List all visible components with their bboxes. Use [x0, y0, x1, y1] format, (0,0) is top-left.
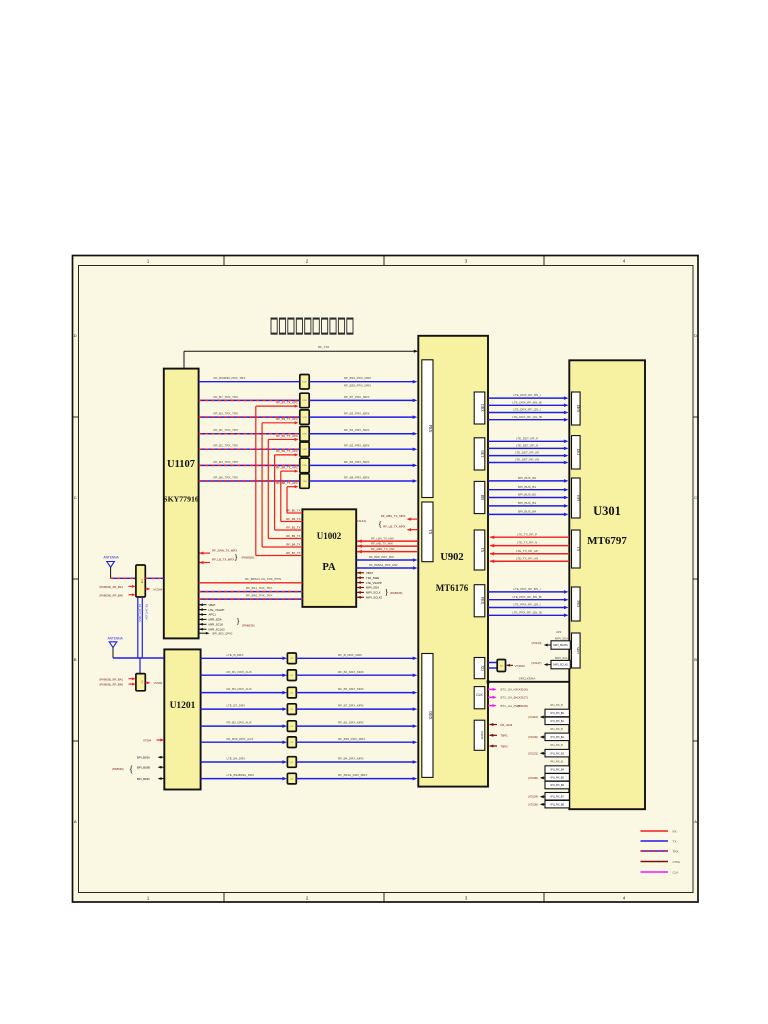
- pin stub VBAT: [200, 604, 207, 606]
- svg-text:A: A: [74, 819, 77, 824]
- svg-text:DRX: DRX: [480, 404, 484, 412]
- svg-text:LTE_PRX_RF_QN_I: LTE_PRX_RF_QN_I: [513, 603, 541, 607]
- IPU port box 7: [545, 781, 569, 789]
- wire LTE_TX_RF_AP: [490, 553, 569, 555]
- wire LTE_DET_RF_N: [488, 447, 566, 449]
- svg-text:MIPI: MIPI: [576, 647, 580, 654]
- svg-text:LTE_B_DRX: LTE_B_DRX: [227, 653, 244, 657]
- svg-text:LTE_VSAPP: LTE_VSAPP: [366, 581, 382, 585]
- svg-text:PA: PA: [322, 562, 336, 573]
- wire filter to U902 PRX: [309, 416, 415, 418]
- wire junction to diversity switch: [139, 658, 141, 674]
- svg-text:CTRL: CTRL: [673, 860, 681, 864]
- border zone tick: [72, 740, 78, 742]
- svg-text:RF_MB_TX_MW: RF_MB_TX_MW: [371, 541, 393, 545]
- wire SAW to U902 DRX: [296, 778, 415, 780]
- title glyph box: [296, 318, 302, 334]
- svg-text:MIPI_SDA: MIPI_SDA: [366, 586, 379, 590]
- pin stub switch ctrl 2: [129, 594, 135, 596]
- wire SAW to U902 DRX: [296, 725, 415, 727]
- crystal Y1: [497, 660, 505, 672]
- U902 port BPI: [474, 481, 485, 513]
- wire U1201 to SAW: [201, 674, 285, 676]
- svg-text:RF_B1_DRX_MRX: RF_B1_DRX_MRX: [338, 670, 364, 674]
- svg-text:U1B: U1B: [303, 417, 308, 419]
- svg-text:BPI_B03B: BPI_B03B: [137, 765, 150, 769]
- pin stub RF_MB1_TX_MRX: [408, 518, 419, 520]
- pin stub TBP1: [490, 734, 498, 736]
- svg-text:LTE_TX_RF_AP: LTE_TX_RF_AP: [516, 549, 538, 553]
- wire LTE_PRX_RF_QN_IB: [488, 614, 566, 616]
- svg-text:RF_B8_TRX_TRX: RF_B8_TRX_TRX: [214, 475, 239, 479]
- svg-text:VC504: VC504: [154, 681, 163, 685]
- U301 port DET: [572, 436, 581, 469]
- wire LTE_DRX_RF_QN_I: [488, 412, 566, 414]
- diversity SAW filter FL123: [287, 704, 296, 715]
- svg-text:MIPI_SCLK: MIPI_SCLK: [209, 623, 224, 627]
- svg-text:RF_B7_TRX_TRX: RF_B7_TRX_TRX: [214, 395, 239, 399]
- svg-text:RF_B2_TRX_TRX: RF_B2_TRX_TRX: [214, 444, 239, 448]
- wire U1201 to SAW: [201, 708, 285, 710]
- IC block U1201: [164, 649, 200, 789]
- U902 port DRX: [422, 654, 433, 778]
- svg-text:RF_ANT_DIV: RF_ANT_DIV: [145, 604, 149, 620]
- svg-text:(X3144): (X3144): [532, 641, 542, 645]
- svg-text:{: {: [129, 764, 133, 774]
- wire PA to U902 RF_B68A4_PRX: [356, 567, 415, 569]
- svg-text:RF_B34A_DRX_MRX: RF_B34A_DRX_MRX: [338, 773, 367, 777]
- wire U1201 to SAW: [201, 725, 285, 727]
- antenna ANT1 symbol: [107, 562, 115, 568]
- svg-text:RF_B2_DRX_MRX: RF_B2_DRX_MRX: [338, 721, 364, 725]
- wire LTE_TX_RF_N: [490, 545, 569, 547]
- U902 port DRX out: [474, 392, 485, 424]
- wire LTE_DRX_RF_BN_IB: [488, 404, 566, 406]
- wire U1201 to SAW: [201, 657, 285, 659]
- wire ANT2 to U1201: [113, 657, 164, 659]
- wire U1107 to filter: [199, 464, 300, 466]
- pin stub VC5044 out: [145, 682, 148, 684]
- svg-text:}: }: [234, 552, 238, 562]
- svg-text:D: D: [694, 333, 697, 338]
- svg-text:RF_LB_TX_MRX: RF_LB_TX_MRX: [383, 525, 405, 529]
- svg-text:DRX: DRX: [576, 405, 580, 413]
- svg-text:(X3131): (X3131): [528, 751, 538, 755]
- pin stub RF_LB_TX_MRX2: [408, 529, 419, 531]
- svg-text:MIPI_SCLK: MIPI_SCLK: [555, 656, 570, 660]
- MIPI_SCLK0 port box: [551, 660, 570, 668]
- IPU port box 2: [545, 717, 569, 725]
- svg-text:B: B: [694, 657, 697, 662]
- svg-text:LTE_PRX_RF_BN_IB: LTE_PRX_RF_BN_IB: [512, 595, 541, 599]
- wire LTE_DET_RF_AP: [488, 455, 566, 457]
- svg-text:MT6176: MT6176: [436, 583, 469, 593]
- wire BPI_BUS_B1: [488, 489, 566, 491]
- svg-text:IPU_RX_B0: IPU_RX_B0: [550, 712, 564, 715]
- pin stub VT3043: [507, 664, 514, 666]
- wire PA TX feed to filter 7: [286, 487, 288, 513]
- PA block U1002: [302, 509, 356, 607]
- svg-text:RF_B68A4_PRX_MW: RF_B68A4_PRX_MW: [369, 563, 398, 567]
- svg-text:LTE_B7_DRX: LTE_B7_DRX: [227, 704, 246, 708]
- svg-text:RF_B2_PRX_MRX: RF_B2_PRX_MRX: [344, 444, 370, 448]
- duplexer filter FL112: [300, 410, 309, 425]
- IPU port box 3: [545, 733, 569, 741]
- svg-text:LTE_VSAPP: LTE_VSAPP: [209, 608, 225, 612]
- PA pin stub LTE_VSAPP: [357, 582, 364, 584]
- svg-text:BPI_BUS_B1: BPI_BUS_B1: [518, 485, 536, 489]
- U902 port PAVB: [474, 720, 485, 750]
- wire U1201 to SAW: [201, 741, 285, 743]
- wire RF_B68A4_PA_TRK: [199, 582, 303, 584]
- svg-text:(PA8636): (PA8636): [112, 767, 124, 771]
- svg-text:RF_B2_TX: RF_B2_TX: [286, 534, 300, 538]
- svg-text:RF_LB4_TX_MW: RF_LB4_TX_MW: [371, 536, 394, 540]
- svg-text:TBP2: TBP2: [501, 744, 509, 748]
- svg-text:RF_B4_DRX_MRX: RF_B4_DRX_MRX: [338, 757, 364, 761]
- svg-text:(PA8636)_RF_B41: (PA8636)_RF_B41: [100, 677, 124, 681]
- wire MIPI_SCLK0: [546, 664, 551, 666]
- U902 port DET: [474, 438, 485, 470]
- PA pin stub MIPI_SCLK2: [357, 596, 364, 598]
- wire PA TX feed to filter 3: [261, 423, 263, 547]
- svg-text:CLK: CLK: [476, 693, 483, 697]
- wire SAW to U902 DRX: [296, 708, 415, 710]
- svg-text:BPI_B03A: BPI_B03A: [137, 755, 150, 759]
- pin stub LTE_VSAPP: [200, 609, 207, 611]
- pin stub APC1: [200, 614, 207, 616]
- svg-text:PRX: PRX: [576, 601, 580, 608]
- svg-text:RF_B2_DRX_AUX: RF_B2_DRX_AUX: [227, 721, 252, 725]
- svg-text:(PA8636)_RF_B40: (PA8636)_RF_B40: [100, 593, 124, 597]
- svg-text:U902: U902: [440, 552, 463, 563]
- wire ANT1 to switch dashed: [111, 577, 136, 579]
- svg-text:LTE_DET_RF_P: LTE_DET_RF_P: [516, 436, 538, 440]
- svg-text:U1B: U1B: [303, 481, 308, 483]
- svg-text:RF_TX0: RF_TX0: [318, 345, 330, 349]
- pin stub BPI_B03A: [159, 756, 165, 758]
- border zone tick: [223, 255, 225, 265]
- wire SAW to U902 DRX: [296, 741, 415, 743]
- antenna switch U1A1: [136, 565, 145, 597]
- border zone tick: [72, 578, 78, 580]
- transceiver block U902: [418, 336, 488, 787]
- svg-text:RF_B1_TRX_TRX: RF_B1_TRX_TRX: [214, 428, 239, 432]
- wire IPU (X3130): [542, 736, 546, 738]
- wire BTC_GA_BK: [488, 696, 495, 698]
- svg-text:RF_3044: RF_3044: [501, 723, 513, 727]
- svg-text:LTE_DET_RF_AN: LTE_DET_RF_AN: [515, 458, 539, 462]
- wire switch feed vertical B: [141, 597, 143, 658]
- wire filter to U902 PRX: [309, 480, 415, 482]
- svg-text:IPU_RX_B2: IPU_RX_B2: [550, 736, 564, 739]
- svg-text:(X3147): (X3147): [532, 661, 542, 665]
- pin stub MIPI_SCLK2: [200, 628, 207, 630]
- wire U1107 to filter: [199, 480, 300, 482]
- title glyph box: [305, 318, 311, 334]
- U902 port CLK: [474, 687, 485, 709]
- pin stub switch ctrl 1: [129, 585, 135, 587]
- wire MIPI_SDATA: [546, 644, 551, 646]
- wire U902 TX to PA RF_LB4_TX_MW: [357, 540, 418, 542]
- wire U1107 to filter: [199, 399, 300, 401]
- wire BPI_BUS_B3: [488, 505, 566, 507]
- svg-text:RF_B3_TRX_TRX: RF_B3_TRX_TRX: [214, 412, 239, 416]
- svg-text:}: }: [236, 616, 240, 626]
- svg-text:IPU_RX_B3: IPU_RX_B3: [550, 752, 564, 755]
- wire LTE_TX_RF_P: [490, 536, 569, 538]
- U902 port PRX out: [474, 585, 485, 617]
- wire SAW to U902 DRX: [296, 761, 415, 763]
- svg-text:IPU_RX_B: IPU_RX_B: [550, 727, 563, 731]
- wire filter to U902 PRX: [309, 381, 415, 383]
- IPU port box 5: [545, 766, 569, 774]
- svg-text:VBAT: VBAT: [366, 571, 373, 575]
- wire BTC_GA_PWR: [488, 705, 495, 707]
- svg-text:RF_B8_PRX_MRX: RF_B8_PRX_MRX: [344, 475, 370, 479]
- title glyph box: [279, 318, 285, 334]
- svg-text:RF_B40_TRX_TRX: RF_B40_TRX_TRX: [246, 594, 272, 598]
- svg-text:(X3144): (X3144): [355, 519, 366, 523]
- title glyph box: [313, 318, 319, 334]
- svg-text:LTE_TX_RF_N: LTE_TX_RF_N: [517, 541, 537, 545]
- pin stub RF_3044: [490, 724, 498, 726]
- svg-text:VBAT: VBAT: [209, 603, 216, 607]
- wire SRCLKENA: [488, 681, 569, 683]
- svg-text:(X3108): (X3108): [518, 704, 528, 708]
- duplexer filter FL111: [300, 393, 309, 408]
- wire XO to crystal a: [488, 662, 497, 664]
- border zone tick: [543, 255, 545, 265]
- svg-text:BPI_BUS_B4: BPI_BUS_B4: [518, 510, 536, 514]
- svg-text:RF_B39_PRX_MRX: RF_B39_PRX_MRX: [344, 384, 371, 388]
- PA pin stub TPA_SWE: [357, 577, 364, 579]
- svg-text:RF_B41_TRX_TRX: RF_B41_TRX_TRX: [246, 586, 272, 590]
- U301 port TX: [572, 530, 581, 568]
- U301 port MIPI: [572, 633, 581, 668]
- svg-text:RF_B7_DRX_MRX: RF_B7_DRX_MRX: [338, 704, 364, 708]
- wire switch to U1107 dashed: [145, 577, 164, 579]
- wire U1201 to SAW: [201, 692, 285, 694]
- IPU port box 6: [545, 774, 569, 782]
- diversity SAW filter FL122: [287, 687, 296, 698]
- wire LTE_PRX_RF_BN_I: [488, 591, 566, 593]
- svg-text:RF_LB_TX_MRX: RF_LB_TX_MRX: [212, 558, 234, 562]
- svg-text:U1B: U1B: [303, 449, 308, 451]
- svg-text:LTE_DET_RF_N: LTE_DET_RF_N: [516, 444, 538, 448]
- U301 port BPI: [572, 478, 581, 518]
- wire BPI_BUS_B0: [488, 480, 566, 482]
- svg-text:RF_B3_DRX_AUX: RF_B3_DRX_AUX: [227, 687, 252, 691]
- svg-text:MIPI_SDATA: MIPI_SDATA: [553, 644, 568, 647]
- wire PA TX feed to filter 2: [255, 406, 257, 555]
- svg-text:IPU_RX_B7: IPU_RX_B7: [550, 795, 564, 798]
- svg-text:IPU_RX_B6: IPU_RX_B6: [550, 784, 564, 787]
- svg-text:MIPI_SCLK2: MIPI_SCLK2: [366, 596, 383, 600]
- duplexer filter FL115: [300, 458, 309, 473]
- svg-text:MT6797: MT6797: [587, 535, 627, 547]
- wire BTC_GA_NF: [488, 688, 495, 690]
- pin stub div ctrl 1: [129, 678, 135, 680]
- legend line TRX dashed: [641, 850, 669, 852]
- svg-text:(X3134): (X3134): [528, 795, 538, 799]
- diversity SAW filter FL126: [287, 757, 296, 768]
- wire LTE_PRX_RF_BN_IB: [488, 599, 566, 601]
- svg-text:(X3136): (X3136): [528, 802, 538, 806]
- svg-text:RF_B2_TX_APC: RF_B2_TX_APC: [276, 449, 298, 453]
- wire LTE_PRX_RF_QN_I: [488, 607, 566, 609]
- pin stub BPI_B03_QPA: [200, 632, 208, 634]
- wire filter to U902 PRX: [309, 433, 415, 435]
- svg-text:C: C: [694, 495, 697, 500]
- wire SAW to U902 DRX: [296, 674, 415, 676]
- svg-text:LTE_B34B39A_DRX: LTE_B34B39A_DRX: [227, 773, 255, 777]
- title glyph box: [322, 318, 328, 334]
- wire LTE_DET_RF_AN: [488, 462, 566, 464]
- svg-text:TRX: TRX: [673, 849, 679, 853]
- title glyph box: [347, 318, 353, 334]
- wire filter to U902 PRX: [309, 448, 415, 450]
- svg-text:RF_B4_PRX_MRX: RF_B4_PRX_MRX: [344, 460, 370, 464]
- diversity SAW filter FL121: [287, 670, 296, 681]
- wire IPU (X3110): [542, 716, 546, 718]
- svg-text:SRCLKENA: SRCLKENA: [519, 676, 537, 680]
- svg-text:ANTENNA: ANTENNA: [108, 637, 124, 641]
- svg-text:LTE_PRX_RF_BN_I: LTE_PRX_RF_BN_I: [513, 587, 540, 591]
- PA pin stub MIPI_SDA: [357, 587, 364, 589]
- svg-text:DET: DET: [576, 449, 580, 457]
- svg-text:MIPI_SCLK: MIPI_SCLK: [366, 591, 381, 595]
- outer border frame: [73, 256, 699, 903]
- pin stub MIPI_SDA: [200, 618, 207, 620]
- legend line TX blue: [641, 840, 669, 842]
- wire U1107 to filter: [199, 433, 300, 435]
- svg-text:BTC_GA_NF: BTC_GA_NF: [501, 688, 518, 692]
- svg-text:RF_B4_TRX_TRX: RF_B4_TRX_TRX: [214, 460, 239, 464]
- sheet background: [72, 255, 699, 903]
- svg-text:RF_B68_PRX_MW: RF_B68_PRX_MW: [369, 555, 394, 559]
- wire U1107 to filter: [199, 416, 300, 418]
- wire SAW to U902 DRX: [296, 692, 415, 694]
- svg-text:RF_B7_TX_APC: RF_B7_TX_APC: [276, 400, 298, 404]
- title glyph box: [288, 318, 294, 334]
- svg-text:MIPI_SCLK0: MIPI_SCLK0: [553, 664, 568, 667]
- svg-text:RF_B0_TX: RF_B0_TX: [286, 508, 300, 512]
- svg-text:C: C: [74, 495, 77, 500]
- wire U1201 to SAW: [201, 761, 285, 763]
- MIPI_SDATA port box: [551, 641, 570, 649]
- U902 port PRX: [422, 360, 433, 498]
- wire IPU (X3131): [542, 752, 546, 754]
- baseband block U301: [569, 360, 645, 809]
- svg-text:BPI_BUS_B0: BPI_BUS_B0: [518, 476, 536, 480]
- wire switch feed vertical A: [137, 597, 139, 658]
- svg-text:(X3110): (X3110): [528, 715, 538, 719]
- svg-text:D: D: [74, 333, 77, 338]
- svg-text:RF_B1_PRX_MRX: RF_B1_PRX_MRX: [344, 428, 370, 432]
- svg-text:RX: RX: [673, 829, 677, 833]
- svg-text:RF_MB1_TX_MRX: RF_MB1_TX_MRX: [381, 514, 406, 518]
- wire IPU (X3134): [542, 796, 546, 798]
- wire XO to crystal b: [488, 667, 497, 669]
- svg-text:U1B: U1B: [303, 434, 308, 436]
- border zone tick: [383, 255, 385, 265]
- wire LTE_DET_RF_P: [488, 440, 566, 442]
- U902 port TX in: [474, 530, 485, 570]
- svg-text:A: A: [694, 819, 697, 824]
- svg-text:(X3100): (X3100): [528, 776, 538, 780]
- svg-text:RF_B1_TX_APC: RF_B1_TX_APC: [276, 434, 298, 438]
- svg-text:RF_B39_DRX_MRX: RF_B39_DRX_MRX: [338, 737, 365, 741]
- svg-text:LTE_DRX_RF_QN_IB: LTE_DRX_RF_QN_IB: [512, 415, 542, 419]
- svg-text:RF_B39_DRX_AUX: RF_B39_DRX_AUX: [227, 737, 254, 741]
- svg-text:U1B: U1B: [303, 382, 308, 384]
- diversity SAW filter FL127: [287, 773, 296, 784]
- svg-text:(PA8636): (PA8636): [242, 556, 254, 560]
- svg-text:TX: TX: [673, 839, 677, 843]
- svg-text:DET: DET: [480, 450, 484, 458]
- wire SAW to U902 DRX: [296, 657, 415, 659]
- wire filter to U902 PRX: [309, 464, 415, 466]
- legend line control maroon: [641, 861, 669, 863]
- svg-text:TX: TX: [576, 547, 580, 552]
- svg-text:}: }: [385, 587, 389, 597]
- svg-text:PRX: PRX: [480, 597, 484, 604]
- svg-text:U301: U301: [593, 504, 621, 518]
- duplexer filter FL113: [300, 427, 309, 442]
- diversity SAW filter FL124: [287, 721, 296, 732]
- svg-text:TPA_SWE: TPA_SWE: [366, 576, 379, 580]
- border zone tick: [72, 416, 78, 418]
- svg-text:RF_B1_TX: RF_B1_TX: [286, 525, 300, 529]
- svg-text:(PA8636): (PA8636): [390, 591, 402, 595]
- svg-text:LTE_PRX_RF_QN_IB: LTE_PRX_RF_QN_IB: [512, 610, 541, 614]
- wire U1107 to filter: [199, 381, 300, 383]
- wire PA TX feed to filter 5: [274, 455, 276, 530]
- duplexer filter FL116: [300, 474, 309, 489]
- svg-text:RF_B34_PRX_MRX: RF_B34_PRX_MRX: [344, 376, 371, 380]
- svg-text:RF_B8_TX_APC: RF_B8_TX_APC: [276, 481, 298, 485]
- svg-text:(X3130): (X3130): [528, 735, 538, 739]
- svg-text:{: {: [378, 519, 382, 529]
- svg-text:(PA8636): (PA8636): [242, 624, 254, 628]
- pin stub VT7044: [157, 739, 163, 741]
- svg-text:IPU_RX_B5: IPU_RX_B5: [550, 776, 564, 779]
- pin stub RF_LB_TX_MRX: [200, 562, 211, 564]
- svg-text:LTE_B4_DRX: LTE_B4_DRX: [227, 757, 246, 761]
- U902 port XO: [474, 658, 485, 679]
- duplexer filter FL114: [300, 442, 309, 457]
- U301 port DRX: [572, 392, 581, 425]
- svg-text:U1A: U1A: [141, 579, 144, 584]
- svg-text:ANTENNA: ANTENNA: [104, 556, 120, 560]
- svg-text:RF_B3_TX: RF_B3_TX: [286, 517, 300, 521]
- wire RF_TX0 net from U1107 top to U902: [183, 351, 185, 368]
- svg-text:RF_B3_TX_APC: RF_B3_TX_APC: [276, 417, 298, 421]
- svg-text:VT504: VT504: [143, 738, 152, 742]
- svg-text:RF_B1_DRX_AUX: RF_B1_DRX_AUX: [227, 670, 252, 674]
- inner border frame: [79, 266, 694, 893]
- svg-text:LTE_DRX_RF_BN_I: LTE_DRX_RF_BN_I: [513, 393, 540, 397]
- pin stub MIPI_SCLK: [200, 623, 207, 625]
- svg-text:(PA8636)_RF_B41: (PA8636)_RF_B41: [100, 585, 124, 589]
- svg-text:TBP1: TBP1: [501, 734, 509, 738]
- IPU port box 9: [545, 800, 569, 808]
- U902 port TX: [422, 502, 433, 562]
- IC block U1107: [164, 369, 199, 639]
- wire RF_B40_TRX dashed: [199, 598, 303, 600]
- svg-text:TX: TX: [428, 529, 433, 534]
